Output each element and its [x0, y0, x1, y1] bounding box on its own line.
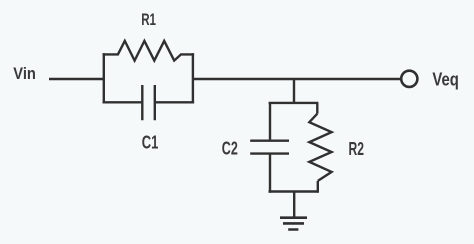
wire C2 lower lead — [269, 154, 271, 193]
resistor R2 — [309, 114, 331, 181]
terminal Veq (open circle) — [401, 71, 417, 87]
svg-text:R2: R2 — [349, 139, 365, 159]
resistor R1 — [103, 41, 195, 61]
capacitor C1 — [142, 85, 155, 120]
svg-text:C2: C2 — [222, 139, 238, 159]
svg-text:Vin: Vin — [13, 64, 36, 83]
wire left vertical of R1/C1 block — [103, 53, 105, 103]
wire from block to Veq terminal — [193, 78, 401, 80]
wire R2 upper lead — [316, 103, 318, 114]
wire right vertical of R1/C1 block — [192, 53, 194, 103]
wire R2 lower lead — [317, 181, 319, 193]
wire to ground — [293, 192, 295, 218]
wire C2 upper lead — [269, 103, 271, 141]
junction wire at node A — [293, 79, 295, 103]
wire top bar of C2/R2 block — [269, 102, 319, 104]
svg-text:C1: C1 — [142, 132, 159, 152]
svg-text:R1: R1 — [141, 10, 156, 29]
wire from Vin to parallel block — [49, 78, 104, 80]
wire from C1 right plate to block corner — [155, 101, 194, 103]
svg-text:Veq: Veq — [432, 69, 459, 89]
ground — [280, 218, 307, 230]
wire bottom bar of C2/R2 block — [269, 190, 319, 192]
capacitor C2 — [250, 141, 289, 154]
wire from block to C1 left plate — [103, 101, 143, 103]
